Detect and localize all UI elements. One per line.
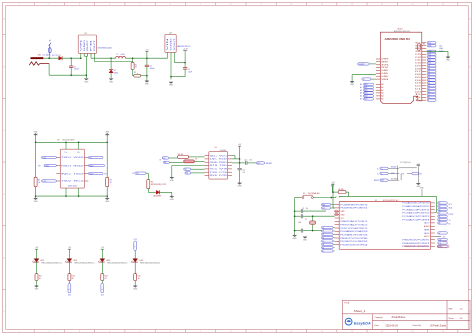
junction switch node [110,57,112,59]
svg-text:TX0: TX0 [136,173,139,175]
ic U4 CH340 [205,147,233,179]
U3 left net flags [38,156,56,183]
U5 left pins [335,204,368,246]
wire jack pin2 down [48,64,50,76]
wire D1 to U1 [62,57,81,59]
ground right of arduino [446,57,451,62]
svg-text:1K: 1K [72,278,75,280]
svg-text:GND: GND [105,201,110,203]
svg-text:DTR: DTR [219,175,228,177]
svg-text:C8: C8 [302,208,304,210]
svg-text:CH340N: CH340N [220,150,227,152]
svg-text:UD-: UD- [210,159,219,161]
svg-text:RST: RST [381,180,384,182]
svg-text:A2: A2 [439,212,441,215]
resistor R1 [131,58,138,69]
net flag RESET right [256,162,273,165]
svg-text:D12: D12 [439,243,442,245]
led circuit LED1 [32,247,62,290]
svg-text:R9: R9 [423,44,425,46]
ic U5 ATMEGA328P-AU box [339,199,430,250]
led circuit LED4 [131,239,161,290]
svg-text:GND: GND [340,211,345,213]
svg-text:PC1/ADC1/PCINT9: PC1/ADC1/PCINT9 [402,215,429,218]
svg-text:EasyEDA: EasyEDA [354,322,371,326]
svg-text:Date:: Date: [375,324,380,327]
svg-text:TITLE:: TITLE: [344,303,350,305]
svg-text:U4: U4 [215,147,217,149]
net flag D- [377,172,388,175]
net flag AREF pink [437,240,449,248]
svg-text:VOUT: VOUT [174,38,176,50]
svg-text:1N4148WS: 1N4148WS [153,195,161,197]
svg-text:+5V: +5V [101,247,105,249]
svg-text:UD+: UD+ [210,155,218,157]
svg-text:TXD2: TXD2 [42,181,46,183]
svg-text:GND: GND [416,186,421,188]
svg-text:SCL: SCL [428,43,431,45]
svg-text:GND: GND [170,180,175,182]
svg-text:Sheet_1: Sheet_1 [354,309,366,313]
svg-text:A4: A4 [381,95,383,98]
svg-text:GND: GND [169,85,174,87]
svg-text:D5: D5 [322,227,324,229]
wire xtal2 row [295,229,322,233]
led circuit LED3 [98,247,128,296]
svg-text:Tx: Tx [449,220,451,222]
svg-text:A0: A0 [381,83,383,86]
svg-text:RST: RST [322,204,325,206]
svg-text:RXD2: RXD2 [89,165,93,167]
svg-text:NC2: NC2 [74,181,84,183]
wire U1 vin pin [80,53,82,59]
svg-text:GND: GND [381,73,389,75]
svg-text:GND: GND [105,131,110,133]
wire feedback U1 [94,53,132,62]
svg-text:PD4/T0/XCK/PD4: PD4/T0/XCK/PD4 [340,245,367,247]
svg-text:AVCC: AVCC [424,235,430,238]
svg-text:+5V: +5V [68,247,72,249]
svg-text:A3: A3 [360,92,362,95]
svg-text:1K: 1K [138,278,141,280]
wire U2 vout [175,52,186,62]
title block [342,300,470,329]
svg-text:AMS1117M-3.3: AMS1117M-3.3 [177,45,190,48]
svg-text:A: A [469,17,471,20]
junction U3 rail right [106,142,108,144]
power flag +5V reset [331,184,335,192]
diode D3 1N4148 [148,189,172,198]
svg-text:SCL: SCL [415,43,421,45]
svg-text:D11: D11 [415,60,421,62]
svg-text:VDD2: VDD2 [74,157,84,159]
svg-text:D11: D11 [428,60,431,62]
svg-text:IOREF: IOREF [381,59,389,61]
svg-text:E: E [469,257,471,259]
svg-text:AREF: AREF [443,240,447,243]
svg-text:SDA: SDA [439,47,443,50]
svg-text:E: E [3,257,5,259]
svg-text:D6: D6 [415,74,421,76]
svg-text:AD4: AD4 [364,95,367,98]
resistor R4 horizontal [178,154,189,158]
svg-text:PD7/AIN1/PCINT23: PD7/AIN1/PCINT23 [340,234,367,237]
junction crystal rail top [294,210,296,212]
svg-text:1K: 1K [38,182,41,184]
svg-text:A0: A0 [439,218,441,221]
svg-text:AREF: AREF [424,228,430,231]
junction reset node [239,162,241,164]
svg-text:PB4/MISO/PCINT4: PB4/MISO/PCINT4 [402,243,429,245]
svg-text:1K: 1K [135,67,138,69]
svg-text:VCC: VCC [340,218,345,220]
arduino right net flags [427,42,436,102]
svg-text:A3: A3 [439,208,441,211]
ground under C16 [238,183,243,188]
ground under D3 [170,192,175,201]
svg-text:D5: D5 [415,77,421,79]
net flag Tx vin [362,78,376,81]
U5 right texts [449,204,455,225]
resistor R8 right [106,142,113,196]
wire U4 gnd to ground [172,166,205,178]
svg-text:+3.3V: +3.3V [183,49,189,51]
svg-text:C: C [3,130,5,132]
svg-text:PB2/SS/OC1B/PCINT2: PB2/SS/OC1B/PCINT2 [404,246,428,248]
svg-text:LM2596S(T)-ADJ: LM2596S(T)-ADJ [97,47,112,50]
capacitor C8 [295,208,326,213]
svg-text:V2+: V2+ [77,152,80,154]
svg-text:AD3: AD3 [364,92,367,95]
resistor R3 [147,180,167,189]
svg-text:LED4: LED4 [139,260,143,262]
svg-text:TXD: TXD [210,172,219,174]
ground U3 left [34,196,39,203]
svg-text:16M: 16M [298,222,302,224]
resistor R5 pink [184,158,198,162]
capacitor C17 dblock [399,162,420,183]
junction U3 bottom left [35,195,37,197]
svg-text:PD0/RXD/PCINT16: PD0/RXD/PCINT16 [340,208,367,210]
svg-text:Zurdo-Bulme: Zurdo-Bulme [392,316,406,319]
svg-text:A6: A6 [439,222,441,225]
junction U3 rail left [35,142,37,144]
svg-text:D?2: D?2 [402,173,405,175]
svg-text:C15: C15 [244,159,247,161]
svg-text:GND: GND [84,81,89,83]
svg-text:GND: GND [415,51,421,53]
capacitor C7 [171,63,192,77]
led circuit LED2 [65,247,95,296]
svg-text:V1+: V1+ [65,152,68,154]
svg-text:B: B [3,66,5,68]
svg-text:PC2/ADC2/PCINT10: PC2/ADC2/PCINT10 [402,212,429,215]
svg-text:D13: D13 [415,54,421,56]
svg-text:1K: 1K [110,182,113,184]
U5 top-left net flags [321,203,334,209]
U5 nc circles [335,210,339,216]
svg-text:+5V: +5V [442,236,446,238]
svg-text:A1: A1 [439,215,441,218]
junction button right [331,197,333,199]
svg-text:D3: D3 [415,83,421,85]
junction U3 bottom right [106,195,108,197]
wire U3 bottom rail [36,188,108,197]
svg-text:D9: D9 [415,66,421,68]
svg-text:PORT: PORT [449,214,455,216]
wire U4 reset row [232,162,240,164]
svg-text:El Profe Zurdo: El Profe Zurdo [431,324,447,327]
wire arduino gnd pin [352,75,376,82]
svg-text:502K: 502K [391,173,394,175]
wire crystal left rail [294,198,296,236]
svg-text:PC6/RESET/PCINT14: PC6/RESET/PCINT14 [340,204,367,206]
svg-text:LED3: LED3 [106,260,110,262]
diode D2 SS34 [109,58,118,78]
svg-text:104: 104 [242,172,245,174]
svg-text:DM: DM [186,173,189,175]
wires dblock [388,166,404,181]
svg-text:D3: D3 [322,241,324,243]
wire U2 gnd [170,52,172,79]
svg-text:GND: GND [446,60,451,62]
svg-text:3V3: 3V3 [381,65,388,67]
svg-text:D: D [3,194,5,196]
svg-text:PB6/XTAL1/TOSC1: PB6/XTAL1/TOSC1 [340,220,367,223]
wire button to reset pin [331,196,336,197]
svg-text:R12: R12 [39,276,42,278]
svg-text:2023-06-24: 2023-06-24 [386,324,399,327]
svg-text:1K: 1K [105,278,108,280]
wire arduino gnd right [426,51,448,56]
svg-text:R7: R7 [38,180,40,182]
svg-text:GND: GND [381,76,389,78]
svg-text:VIN: VIN [381,79,390,81]
svg-text:A1: A1 [360,86,362,89]
svg-text:+5V: +5V [145,49,149,51]
wire jack to fuse node [43,57,60,59]
svg-text:GND: GND [35,289,40,291]
svg-text:D4: D4 [415,80,421,82]
ground crystal rail [293,235,298,240]
svg-text:D12: D12 [415,57,421,59]
svg-text:PC5/ADC5/SCL/PCINT13: PC5/ADC5/SCL/PCINT13 [402,202,429,205]
isolator U3 box [60,149,84,188]
svg-text:5V1: 5V1 [89,157,92,159]
svg-text:GND: GND [84,38,86,52]
wires flags to U4 [169,157,205,162]
svg-text:10uF: 10uF [188,72,192,74]
svg-text:RED-0805(2012Metric): RED-0805(2012Metric) [42,262,63,265]
svg-text:PD3/INT1/OC2B/PD3: PD3/INT1/OC2B/PD3 [340,241,367,243]
svg-text:D12: D12 [101,295,104,297]
ground under D2 [109,79,114,84]
svg-text:ADC7: ADC7 [424,222,429,225]
svg-text:LED2: LED2 [73,260,77,262]
svg-text:A4: A4 [360,95,362,98]
svg-text:GND: GND [210,162,219,164]
svg-text:R13: R13 [72,276,75,278]
svg-text:RXD: RXD [219,162,228,164]
svg-text:GND: GND [170,199,175,201]
svg-text:D13: D13 [134,239,137,241]
power flag +5V at U4 [238,144,242,168]
svg-text:TXD: TXD [219,165,228,167]
svg-text:A3: A3 [381,92,383,95]
wire TX to R3 [146,173,148,179]
svg-text:RED-0805(2012Metric): RED-0805(2012Metric) [74,262,95,265]
svg-text:GN: GN [164,162,166,164]
svg-text:GND: GND [303,240,308,242]
junction C1 bottom [70,74,72,76]
svg-text:D12: D12 [68,295,71,297]
svg-text:C: C [469,130,471,132]
junction R2-C5 [146,75,148,77]
svg-text:R15: R15 [138,276,141,278]
svg-text:5V0: 5V0 [163,158,166,160]
svg-text:R4 4K7: R4 4K7 [178,154,183,156]
svg-text:SCL: SCL [439,45,442,47]
svg-text:TXD1: TXD1 [42,157,46,159]
svg-text:RESET1: RESET1 [359,64,366,66]
junction U4 vcc [239,158,241,160]
svg-text:D+: D+ [381,168,383,170]
junction +3V3 node [184,62,186,64]
junction fuse-rail [48,57,50,59]
arduino right outer labels [439,45,444,53]
arduino right pins [415,43,426,102]
svg-text:PB0/ICP1/CLKO/PB0: PB0/ICP1/CLKO/PB0 [340,238,367,240]
svg-text:AGND: AGND [424,225,430,228]
svg-text:SS34: SS34 [114,72,118,74]
svg-text:RXD1: RXD1 [61,165,71,167]
svg-text:PC4/ADC4/SDA/PCINT12: PC4/ADC4/SDA/PCINT12 [402,205,429,208]
svg-text:TS-1187A-B-A-B: TS-1187A-B-A-B [308,192,320,195]
arduino left pins upper [376,59,391,81]
junction U1 gnd [86,74,88,76]
net flag RESET1 [358,63,376,66]
svg-text:PB5/SCK/PCINT5: PB5/SCK/PCINT5 [402,239,429,241]
wire U1 out to L1 [91,53,116,58]
svg-text:47uH: 47uH [121,54,126,56]
svg-text:D7: D7 [322,234,324,236]
wire U1 pins to bottom rail [84,53,87,78]
GND text above U5 [420,188,425,197]
svg-text:LED1: LED1 [40,260,44,262]
svg-text:D+: D+ [377,168,379,170]
svg-text:Rx: Rx [449,223,451,225]
svg-text:A7: A7 [322,250,324,253]
pushbutton S2 [295,192,332,199]
svg-text:SCL: SCL [449,204,452,206]
svg-text:A5: A5 [360,98,362,101]
power flag GND top right [105,131,110,142]
svg-text:+5V: +5V [331,182,335,184]
svg-text:100uF: 100uF [150,68,155,70]
trimmer R2 [133,70,147,78]
svg-text:SDA: SDA [449,206,453,209]
svg-text:RXD2: RXD2 [74,165,84,167]
svg-text:D4: D4 [322,244,324,246]
svg-text:R3: R3 [151,182,153,184]
svg-text:AD1: AD1 [364,86,367,89]
svg-text:A6: A6 [322,246,324,249]
resistor R6 pullup [332,189,348,196]
ground below U4 flags [170,177,175,182]
wire U4 vcc to +5V [232,156,240,159]
svg-text:TX: TX [132,173,134,175]
net flag RESET row3 [374,179,388,182]
svg-text:REV:: REV: [449,309,454,311]
wire U2 vin [167,52,169,58]
junction C1 top [70,57,72,59]
ground crystal mid [303,237,308,242]
svg-text:+5V: +5V [35,247,39,249]
svg-text:GND: GND [171,36,173,51]
svg-text:A1: A1 [381,86,383,89]
svg-text:GND: GND [34,201,39,203]
svg-text:D7: D7 [415,71,421,73]
svg-text:PD6/AIN0/OC0A/PD6: PD6/AIN0/OC0A/PD6 [340,230,367,233]
junction C8 xtal [294,215,314,217]
svg-text:RESET: RESET [438,246,443,248]
svg-text:D13: D13 [439,239,442,241]
svg-text:ADC6: ADC6 [424,232,429,235]
svg-text:D12: D12 [428,57,431,59]
svg-text:CTS: CTS [219,172,228,174]
svg-text:A7: A7 [439,232,441,235]
svg-text:RTS: RTS [210,165,220,167]
svg-text:D8: D8 [415,68,421,70]
svg-text:Drawn By:: Drawn By: [413,324,422,327]
net flag VCC pair top [159,157,169,164]
svg-text:B0: B0 [322,237,324,239]
svg-text:1K: 1K [39,278,42,280]
ground under U1 [84,79,89,84]
connector CN1 DC jack [29,54,51,66]
inductor L1 47uH [116,54,126,58]
svg-text:D0: D0 [420,173,422,175]
svg-text:VIN: VIN [80,37,82,51]
svg-text:5V: 5V [381,67,391,69]
ground left of arduino [350,81,355,86]
svg-text:TXD1: TXD1 [61,157,71,159]
svg-text:ARDUINO-UNO-R3: ARDUINO-UNO-R3 [394,30,410,33]
svg-text:M7(4007W)-2-T/R: M7(4007W)-2-T/R [151,184,167,186]
svg-text:100uF: 100uF [74,69,79,71]
svg-text:GND: GND [34,131,39,133]
svg-text:X: X [428,100,430,102]
svg-text:R6 10K: R6 10K [338,189,344,191]
svg-text:VIN: VIN [167,35,169,51]
svg-text:PD5/T1/OC0B/PCINT21: PD5/T1/OC0B/PCINT21 [340,228,367,230]
svg-text:1.0: 1.0 [460,309,464,311]
power flag right gray [435,236,446,238]
ground U3 right [105,196,110,203]
regulator U2 AMS1117-3.3 [165,33,190,53]
svg-text:A: A [3,17,5,20]
svg-text:104: 104 [249,159,252,161]
svg-text:GND: GND [340,214,345,216]
svg-text:GND: GND [109,81,114,83]
svg-text:RESET: RESET [266,163,273,165]
svg-text:RXD: RXD [322,208,326,210]
svg-text:D1: D1 [415,88,421,90]
svg-text:OUT: OUT [94,40,96,51]
ground under U2 [169,82,174,87]
svg-text:GND: GND [293,238,298,240]
svg-text:PC3/ADC3/PCINT11: PC3/ADC3/PCINT11 [402,208,429,211]
